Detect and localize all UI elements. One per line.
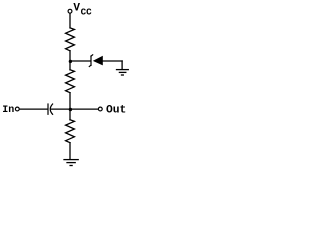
capacitor C1: [48, 104, 53, 114]
terminal In: [15, 107, 19, 111]
resistor R2: [66, 70, 75, 93]
wire: [69, 143, 71, 159]
label VCC: [73, 3, 92, 18]
svg-text:V: V: [73, 3, 80, 15]
wire: [121, 61, 123, 69]
ground (bottom): [64, 160, 78, 166]
wire: [20, 108, 48, 110]
wire: [51, 108, 70, 110]
wire: [70, 108, 98, 110]
ground (right): [117, 70, 129, 75]
wire: [69, 61, 71, 69]
node B: [69, 108, 72, 111]
resistor R3: [66, 120, 75, 143]
terminal VCC: [68, 9, 72, 13]
node A: [69, 60, 72, 63]
svg-text:In: In: [2, 105, 14, 116]
terminal Out: [98, 107, 102, 111]
wire: [70, 60, 90, 62]
resistor R1: [66, 28, 75, 51]
wire: [69, 51, 71, 62]
wire: [102, 60, 122, 62]
wire: [69, 110, 71, 120]
zener diode D1: [89, 55, 103, 67]
wire: [69, 13, 71, 27]
svg-text:CC: CC: [81, 7, 93, 18]
svg-text:Out: Out: [106, 104, 126, 116]
wire: [69, 93, 71, 110]
